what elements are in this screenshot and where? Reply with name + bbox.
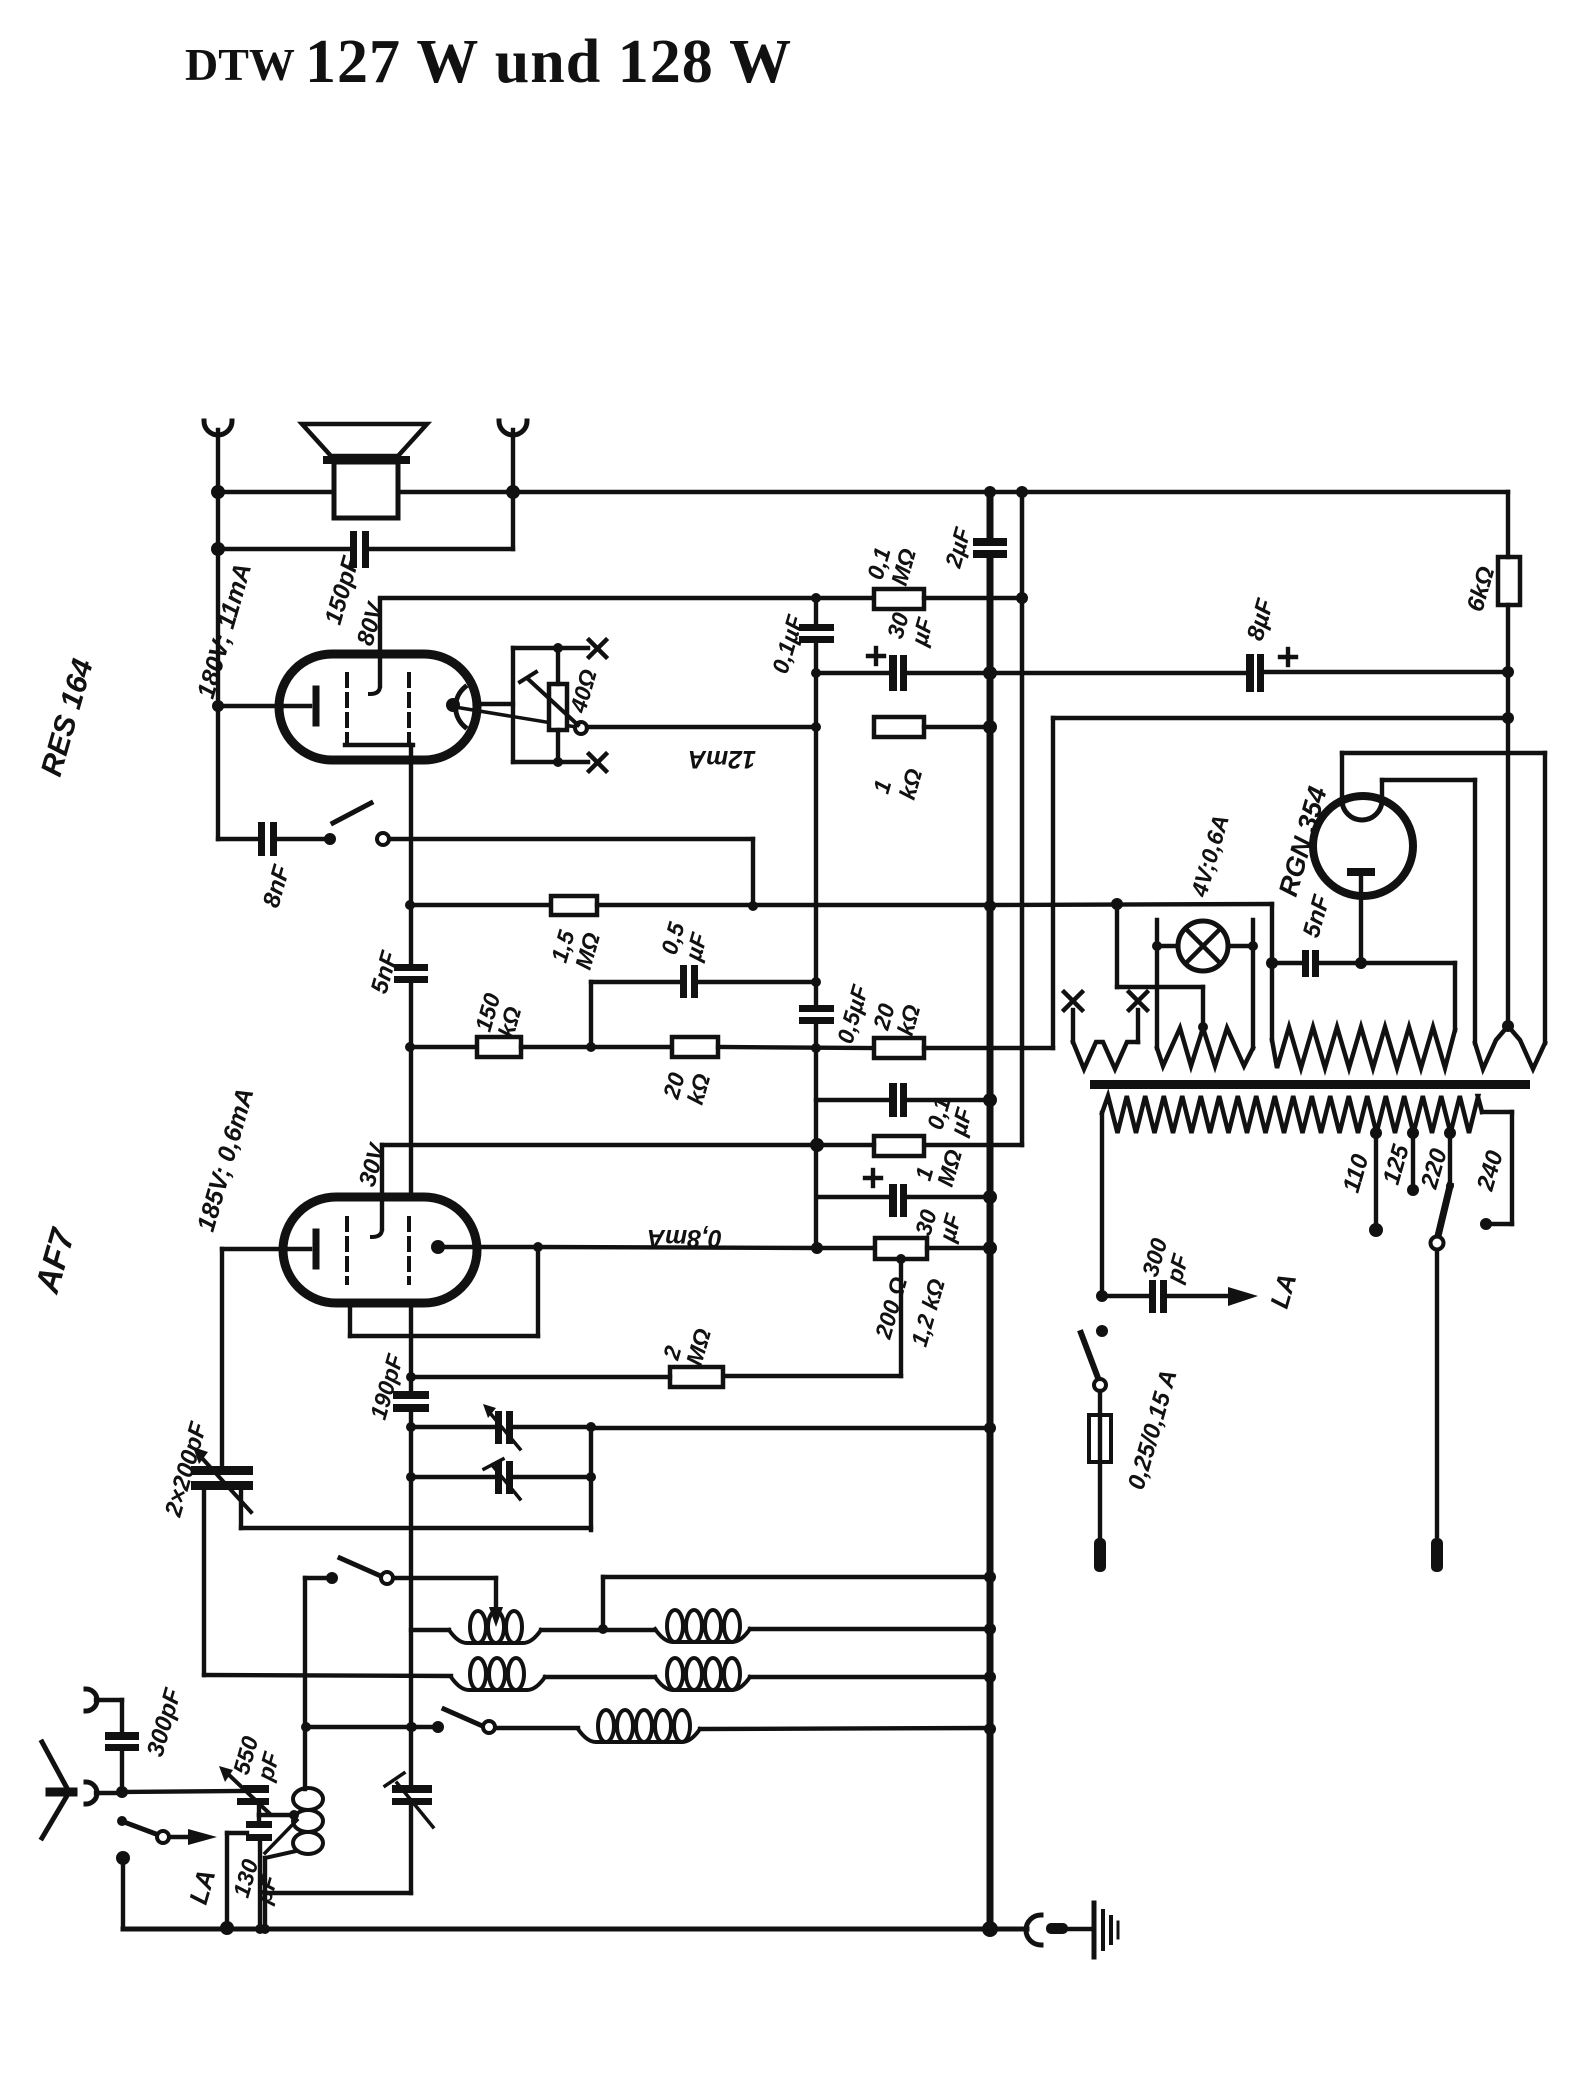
svg-text:12mA: 12mA: [688, 745, 756, 773]
svg-text:127 W und 128 W: 127 W und 128 W: [305, 28, 792, 96]
svg-text:DTW: DTW: [185, 39, 295, 90]
